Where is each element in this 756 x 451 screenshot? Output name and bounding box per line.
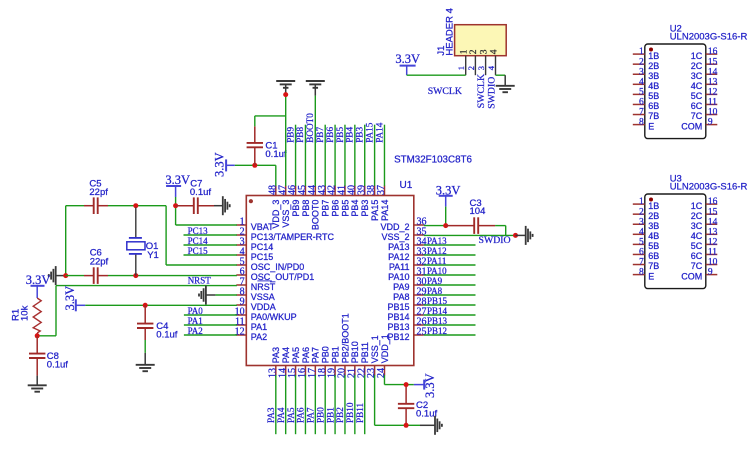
svg-text:6C: 6C: [691, 101, 703, 111]
svg-text:1C: 1C: [691, 51, 703, 61]
wire+net label PA10 at U1 pin 31: [424, 266, 476, 276]
svg-text:ULN2003G-S16-R: ULN2003G-S16-R: [670, 182, 748, 193]
svg-text:PA5: PA5: [286, 407, 296, 423]
svg-text:STM32F103C8T6: STM32F103C8T6: [394, 154, 472, 165]
svg-text:PA9: PA9: [393, 282, 409, 292]
svg-text:PB4: PB4: [350, 200, 360, 217]
label U2 part ULN2003G-S16-R: [670, 32, 748, 43]
label C3 104: [470, 198, 486, 217]
svg-text:PA14: PA14: [380, 200, 390, 221]
svg-text:PB14: PB14: [387, 312, 409, 322]
wire VBAT net from 3.3V to U1 pin 1: [176, 206, 237, 225]
svg-text:PA7: PA7: [311, 347, 321, 363]
U1 pin 37 (PA14) top side: [376, 185, 390, 221]
svg-text:PA11: PA11: [427, 256, 446, 266]
U1 pin 32 (PA11) right side: [389, 256, 427, 271]
svg-text:14: 14: [708, 217, 718, 227]
U1 pin 48 (VDD_3) top side: [267, 185, 281, 229]
ground above U1 pin 44 BOOT0: [306, 81, 325, 96]
svg-text:PC15: PC15: [188, 246, 209, 256]
junction SWDIO/ground: [513, 233, 518, 238]
svg-text:12: 12: [708, 87, 718, 97]
U1 pin 10 (PA0/WKUP) left side: [235, 306, 297, 321]
svg-text:8: 8: [639, 268, 644, 278]
svg-text:PA6: PA6: [301, 347, 311, 363]
svg-text:PB12: PB12: [387, 332, 409, 342]
label U2 designator: [670, 23, 682, 34]
svg-text:6B: 6B: [648, 251, 659, 261]
svg-text:PA15: PA15: [364, 122, 374, 142]
svg-text:PB0: PB0: [321, 346, 331, 363]
svg-text:3B: 3B: [648, 71, 659, 81]
svg-text:14: 14: [708, 67, 718, 77]
junction ground/VSS_3: [283, 92, 288, 97]
U2 pin 15 (2C): [691, 57, 718, 71]
wire+net label PB1 at U1 pin 19: [325, 375, 335, 434]
J1 pin 3: [476, 49, 489, 75]
wire+net label PB3 at U1 pin 39: [355, 125, 365, 186]
U3 pin 11 (6C): [691, 248, 718, 262]
svg-text:11: 11: [708, 98, 717, 108]
junction VSS_1/C2 bottom: [404, 423, 409, 428]
U2 pin 10 (7C): [691, 108, 718, 122]
svg-text:3: 3: [639, 67, 644, 77]
wire 3.3V to J1 pin 1: [407, 74, 466, 76]
wire+net label PB10 at U1 pin 21: [345, 375, 355, 434]
U1 pin 21 (PB10) bottom side: [346, 341, 360, 378]
svg-text:7B: 7B: [648, 111, 659, 121]
svg-text:6C: 6C: [691, 251, 703, 261]
wire+net label PA4 at U1 pin 14: [276, 375, 286, 434]
header J1 body: [455, 25, 507, 56]
wire+net label PA14 at U1 pin 37: [374, 122, 384, 186]
svg-text:1: 1: [456, 66, 466, 70]
svg-text:SWCLK: SWCLK: [476, 74, 487, 108]
svg-text:VDD_2: VDD_2: [380, 222, 409, 232]
wire+net label PB11 at U1 pin 22: [355, 375, 365, 434]
svg-text:10: 10: [708, 108, 718, 118]
svg-text:PB8: PB8: [301, 200, 311, 217]
svg-text:7B: 7B: [648, 261, 659, 271]
svg-text:COM: COM: [681, 271, 702, 281]
ground right of SWDIO row: [516, 226, 533, 245]
junction R1/C8/NRST: [35, 333, 40, 338]
svg-text:PB6: PB6: [325, 127, 335, 143]
U2 pin 1 (1B): [633, 47, 660, 61]
svg-text:PB9: PB9: [285, 127, 295, 143]
wire+net label PC14 to U1 pin 3: [184, 236, 237, 246]
svg-text:1B: 1B: [648, 201, 659, 211]
svg-text:SWDIO: SWDIO: [486, 77, 497, 109]
ground at U1 pin 8 VSSA: [199, 286, 237, 305]
svg-text:PA8: PA8: [393, 292, 409, 302]
svg-text:0.1uf: 0.1uf: [265, 149, 286, 160]
wire+net label PB13 at U1 pin 26: [424, 316, 476, 326]
capacitor C2: [398, 387, 414, 425]
svg-text:PA8: PA8: [427, 286, 443, 296]
U2 pin 13 (4C): [691, 77, 718, 91]
wire VSS_2/SWDIO row U1 pin 35: [424, 234, 516, 236]
net label SWCLK at J1 pin 2: [476, 74, 487, 108]
capacitor C8: [29, 336, 45, 376]
U1 pin 12 (PA2) left side: [235, 326, 268, 341]
wire+net label PC13 to U1 pin 2: [184, 226, 237, 236]
label R1 10k: [11, 305, 31, 321]
svg-text:3C: 3C: [691, 221, 703, 231]
svg-text:E: E: [648, 271, 654, 281]
svg-text:12: 12: [708, 237, 718, 247]
wire OSC_IN net from C5 row to U1 pin 5: [66, 206, 237, 265]
ground at J1 pin 4: [496, 75, 515, 92]
wire+net label PA15 at U1 pin 38: [364, 122, 374, 186]
ground below C8: [28, 376, 47, 392]
U1 pin 16 (PA6) bottom side: [297, 347, 311, 378]
svg-text:9: 9: [708, 268, 713, 278]
svg-text:10k: 10k: [20, 305, 31, 321]
svg-text:PA14: PA14: [374, 122, 384, 142]
svg-text:0.1uf: 0.1uf: [47, 360, 68, 371]
svg-text:4: 4: [639, 227, 644, 237]
svg-text:24: 24: [376, 368, 387, 378]
svg-text:PB1: PB1: [325, 407, 335, 423]
U3 pin 1 (1B): [633, 197, 660, 211]
svg-text:PB15: PB15: [427, 296, 448, 306]
label HEADER 4: [444, 8, 455, 56]
svg-text:16: 16: [708, 197, 718, 207]
wire NRST net from R1/C8 to U1 pin 7: [37, 286, 237, 336]
U1 pin 28 (PB15) right side: [387, 296, 426, 311]
svg-text:PC13/TAMPER-RTC: PC13/TAMPER-RTC: [251, 232, 335, 242]
svg-text:PB11: PB11: [355, 403, 365, 423]
U3 pin 7 (7B): [633, 258, 660, 272]
svg-text:NRST: NRST: [188, 275, 212, 285]
U3 pin 3 (3B): [633, 217, 660, 231]
svg-text:PA3: PA3: [271, 347, 281, 363]
svg-text:VDDA: VDDA: [251, 302, 276, 312]
svg-text:VSS_1: VSS_1: [370, 335, 380, 363]
svg-text:1: 1: [639, 47, 644, 57]
svg-text:PA10: PA10: [388, 272, 409, 282]
svg-text:PB14: PB14: [427, 306, 448, 316]
svg-text:PA15: PA15: [370, 200, 380, 221]
U1 pin 47 (VSS_3) top side: [277, 185, 291, 228]
wire C4 to ground: [144, 340, 146, 353]
U1 pin 31 (PA10) right side: [388, 266, 426, 281]
U1 pin 27 (PB14) right side: [387, 306, 426, 321]
U3 pin 8 (E): [633, 268, 655, 282]
wire+net label PA13 at U1 pin 34: [424, 236, 476, 246]
net label SWDIO at C3: [479, 235, 511, 246]
svg-text:4B: 4B: [648, 81, 659, 91]
crystal Y1: [127, 208, 145, 276]
label C8 0.1uf: [47, 351, 68, 371]
wire+net label PA1 to U1 pin 11: [184, 316, 237, 326]
svg-text:3: 3: [476, 66, 486, 70]
U3 pin 4 (4B): [633, 227, 660, 241]
svg-text:PB12: PB12: [427, 326, 447, 336]
svg-text:PA2: PA2: [188, 326, 203, 336]
capacitor C4: [137, 305, 153, 340]
U3 pin 10 (7C): [691, 258, 718, 272]
svg-text:PA10: PA10: [427, 266, 447, 276]
svg-text:104: 104: [470, 206, 486, 217]
svg-text:PB2: PB2: [335, 407, 345, 423]
IC U2 ULN2003G-S16-R body: [645, 44, 706, 139]
U2 pin 5 (5B): [633, 87, 660, 101]
label C4 0.1uf: [156, 321, 177, 341]
power 3.3V above C3: [436, 183, 461, 225]
svg-text:4: 4: [639, 77, 644, 87]
U2 pin 7 (7B): [633, 108, 660, 122]
junction ground/C6 row: [63, 273, 68, 278]
U1 pin 19 (PB1) bottom side: [327, 346, 341, 378]
U1 pin 8 (VSSA) left side: [236, 286, 275, 301]
wire J1 pin 4 to ground: [496, 74, 506, 76]
U1 pin 43 (PB7) top side: [317, 185, 331, 217]
svg-text:22pf: 22pf: [90, 256, 109, 267]
U1 pin 23 (VSS_1) bottom side: [366, 335, 380, 378]
ground above U1 pin 47: [276, 81, 295, 95]
svg-text:22pf: 22pf: [89, 187, 108, 198]
U3 pin 15 (2C): [691, 207, 718, 221]
svg-text:5C: 5C: [691, 91, 703, 101]
wire+net label PB12 at U1 pin 25: [424, 326, 476, 336]
wire+net label PA9 at U1 pin 30: [424, 276, 476, 286]
U1 pin 42 (PB6) top side: [327, 185, 341, 217]
svg-text:ULN2003G-S16-R: ULN2003G-S16-R: [670, 32, 748, 43]
svg-text:PC15: PC15: [251, 252, 274, 262]
U1 pin 11 (PA1) left side: [235, 316, 267, 331]
svg-text:PB5: PB5: [335, 127, 345, 143]
svg-text:13: 13: [708, 227, 718, 237]
U1 pin 26 (PB13) right side: [387, 316, 426, 331]
U1 pin 2 (PC13/TAMPER-RTC) left side: [236, 226, 334, 241]
svg-text:PB8: PB8: [295, 127, 305, 143]
svg-text:PB13: PB13: [427, 316, 448, 326]
U3 pin 16 (1C): [691, 197, 718, 211]
svg-text:PB3: PB3: [355, 127, 365, 143]
svg-text:5: 5: [639, 87, 644, 97]
U1 pin 38 (PA15) top side: [366, 185, 380, 221]
svg-text:15: 15: [708, 57, 718, 67]
U1 pin 44 (BOOT0) top side: [307, 185, 321, 230]
net label SWCLK horizontal: [428, 86, 462, 97]
resistor R1: [33, 298, 41, 336]
label U3 part ULN2003G-S16-R: [670, 182, 748, 193]
svg-text:VSS_3: VSS_3: [281, 200, 291, 228]
U1 pin 41 (PB5) top side: [337, 185, 351, 217]
label U3 designator: [670, 173, 682, 184]
svg-text:PB5: PB5: [340, 200, 350, 217]
svg-text:PA4: PA4: [276, 407, 286, 423]
svg-text:PA2: PA2: [251, 332, 267, 342]
U1 pin 3 (PC14) left side: [236, 236, 273, 251]
wire+net label PA2 to U1 pin 12: [184, 326, 237, 336]
svg-text:2: 2: [639, 207, 644, 217]
wire+net label PB15 at U1 pin 28: [424, 296, 476, 306]
wire+net label PA7 at U1 pin 17: [306, 375, 316, 434]
svg-text:1: 1: [639, 197, 644, 207]
U1 pin 6 (OSC_OUT/PD1) left side: [236, 266, 314, 281]
ground below C4: [136, 353, 155, 371]
svg-text:U1: U1: [400, 180, 413, 191]
IC U3 ULN2003G-S16-R body: [645, 194, 706, 289]
junction 3.3V/C3/VDD_2: [443, 223, 448, 228]
svg-text:PA1: PA1: [251, 322, 267, 332]
svg-text:PB7: PB7: [315, 127, 325, 143]
svg-text:6: 6: [639, 98, 644, 108]
svg-text:2: 2: [639, 57, 644, 67]
svg-text:PA6: PA6: [296, 407, 306, 423]
svg-text:PB4: PB4: [345, 127, 355, 143]
wire+net label PB8 at U1 pin 45: [295, 125, 305, 186]
power 3.3V at J1 pin 1: [395, 52, 420, 75]
U2 pin 12 (5C): [691, 87, 718, 101]
junction C1/3.3V rail: [252, 163, 257, 168]
svg-text:PB2/BOOT1: PB2/BOOT1: [340, 313, 350, 363]
U2 pin 8 (E): [633, 118, 655, 132]
svg-text:37: 37: [376, 185, 387, 195]
U1 pin 15 (PA5) bottom side: [287, 347, 301, 378]
junction VDDA/C4: [143, 303, 148, 308]
svg-text:15: 15: [708, 207, 718, 217]
svg-text:25: 25: [417, 326, 427, 337]
capacitor C3: [446, 217, 495, 234]
wire+net label PB6 at U1 pin 42: [325, 125, 335, 186]
U3 pin 9 (COM): [681, 268, 717, 282]
svg-text:COM: COM: [681, 121, 702, 131]
capacitor C1: [247, 116, 286, 165]
svg-text:7: 7: [639, 108, 644, 118]
svg-text:7C: 7C: [691, 111, 703, 121]
U1 pin 17 (PA7) bottom side: [307, 347, 321, 378]
svg-text:3: 3: [639, 217, 644, 227]
label J1 designator: [436, 46, 447, 56]
svg-text:PB0: PB0: [315, 407, 325, 423]
MCU U1 body outline: [246, 196, 413, 366]
svg-text:0.1uf: 0.1uf: [156, 330, 177, 341]
U2 pin 16 (1C): [691, 47, 718, 61]
wire+net label PB7 at U1 pin 43: [315, 125, 325, 186]
U3 pin 6 (6B): [633, 248, 660, 262]
svg-text:2: 2: [466, 66, 476, 70]
U1 pin 29 (PA8) right side: [393, 286, 426, 301]
svg-text:VDD_3: VDD_3: [271, 200, 281, 229]
U1 pin 22 (PB11) bottom side: [356, 342, 370, 378]
power 3.3V rotated at C1 rail: [213, 152, 235, 177]
U2 pin 9 (COM): [681, 118, 717, 132]
power 3.3V rotated at VDDA: [63, 286, 85, 311]
wire+net label PB9 at U1 pin 46: [285, 125, 295, 186]
svg-text:9: 9: [708, 118, 713, 128]
svg-text:8: 8: [639, 118, 644, 128]
wire OSC_OUT net from ground to U1 pin 6: [66, 275, 237, 277]
U1 pin 33 (PA12) right side: [388, 246, 426, 261]
U1 pin 40 (PB4) top side: [346, 185, 360, 217]
svg-text:4: 4: [489, 49, 499, 54]
svg-text:PA13: PA13: [388, 242, 409, 252]
svg-text:1C: 1C: [691, 201, 703, 211]
svg-text:VDD_1: VDD_1: [380, 334, 390, 363]
label U1 designator: [400, 180, 413, 191]
svg-text:SWCLK: SWCLK: [428, 86, 462, 97]
capacitor C6: [84, 267, 108, 284]
J1 pin 1: [456, 49, 469, 75]
svg-text:PB9: PB9: [291, 200, 301, 217]
svg-text:10: 10: [708, 258, 718, 268]
U1 pin 9 (VDDA) left side: [236, 296, 276, 311]
wire vertical linking C5 row to C6 row: [65, 206, 67, 276]
label C5 22pf: [89, 178, 108, 198]
capacitor C7: [176, 197, 214, 214]
wire 3.3V rail to U1 pin 48 VDD_3: [235, 165, 276, 186]
U3 pin 5 (5B): [633, 237, 660, 251]
svg-text:0.1uf: 0.1uf: [190, 187, 211, 198]
U1 pin 20 (PB2/BOOT1) bottom side: [337, 313, 351, 378]
svg-text:1: 1: [460, 49, 470, 54]
svg-text:PA13: PA13: [427, 236, 447, 246]
svg-text:PB3: PB3: [360, 200, 370, 217]
svg-text:PC14: PC14: [188, 236, 209, 246]
svg-text:5C: 5C: [691, 241, 703, 251]
U3 pin 14 (3C): [691, 217, 718, 231]
svg-text:4C: 4C: [691, 81, 703, 91]
svg-text:PA11: PA11: [389, 262, 410, 272]
svg-text:PB13: PB13: [387, 322, 409, 332]
svg-text:PB7: PB7: [321, 200, 331, 217]
wire VDD_2 U1 pin 36 to 3.3V and C3: [424, 226, 506, 236]
U2 pin 4 (4B): [633, 77, 660, 91]
wire+net label PA8 at U1 pin 29: [424, 286, 476, 296]
U2 pin 3 (3B): [633, 67, 660, 81]
wire VDD_1 U1 pin 24 to 3.3V/C2: [384, 375, 413, 385]
svg-text:PB11: PB11: [360, 342, 370, 363]
svg-text:PB1: PB1: [330, 346, 340, 363]
svg-text:PA9: PA9: [427, 276, 443, 286]
capacitor C5: [84, 197, 108, 214]
U3 pin 12 (5C): [691, 237, 718, 251]
svg-text:OSC_IN/PD0: OSC_IN/PD0: [251, 262, 305, 272]
wire VSS_3 column U1 pin 47 to ground: [285, 95, 287, 186]
U1 pin 13 (PA3) bottom side: [267, 347, 281, 378]
svg-text:13: 13: [708, 77, 718, 87]
wire+net label PC15 to U1 pin 4: [184, 246, 237, 256]
svg-text:5B: 5B: [648, 91, 659, 101]
svg-text:OSC_OUT/PD1: OSC_OUT/PD1: [251, 272, 315, 282]
net label NRST: [188, 275, 212, 285]
U1 pin 5 (OSC_IN/PD0) left side: [236, 256, 304, 271]
svg-text:PA1: PA1: [188, 316, 203, 326]
wire BOOT0 column U1 pin 44 to ground: [314, 96, 316, 186]
U1 pin 24 (VDD_1) bottom side: [376, 334, 390, 378]
svg-text:16: 16: [708, 47, 718, 57]
svg-text:PB15: PB15: [387, 302, 409, 312]
svg-text:NRST: NRST: [251, 282, 276, 292]
svg-text:5B: 5B: [648, 241, 659, 251]
svg-text:PC13: PC13: [188, 226, 209, 236]
wire+net label BOOT0 at U1 pin 44: [305, 113, 315, 186]
U2 pin 11 (6C): [691, 98, 718, 112]
U2 pin 14 (3C): [691, 67, 718, 81]
svg-text:5: 5: [639, 237, 644, 247]
svg-text:2B: 2B: [648, 61, 659, 71]
U1 pin 7 (NRST) left side: [236, 276, 276, 291]
svg-text:PA0: PA0: [188, 306, 204, 316]
ground right of C2: [420, 416, 442, 435]
U1 pin 30 (PA9) right side: [393, 276, 426, 291]
junction C5/crystal-top/OSC_IN: [133, 203, 138, 208]
svg-text:PB10: PB10: [345, 402, 355, 423]
